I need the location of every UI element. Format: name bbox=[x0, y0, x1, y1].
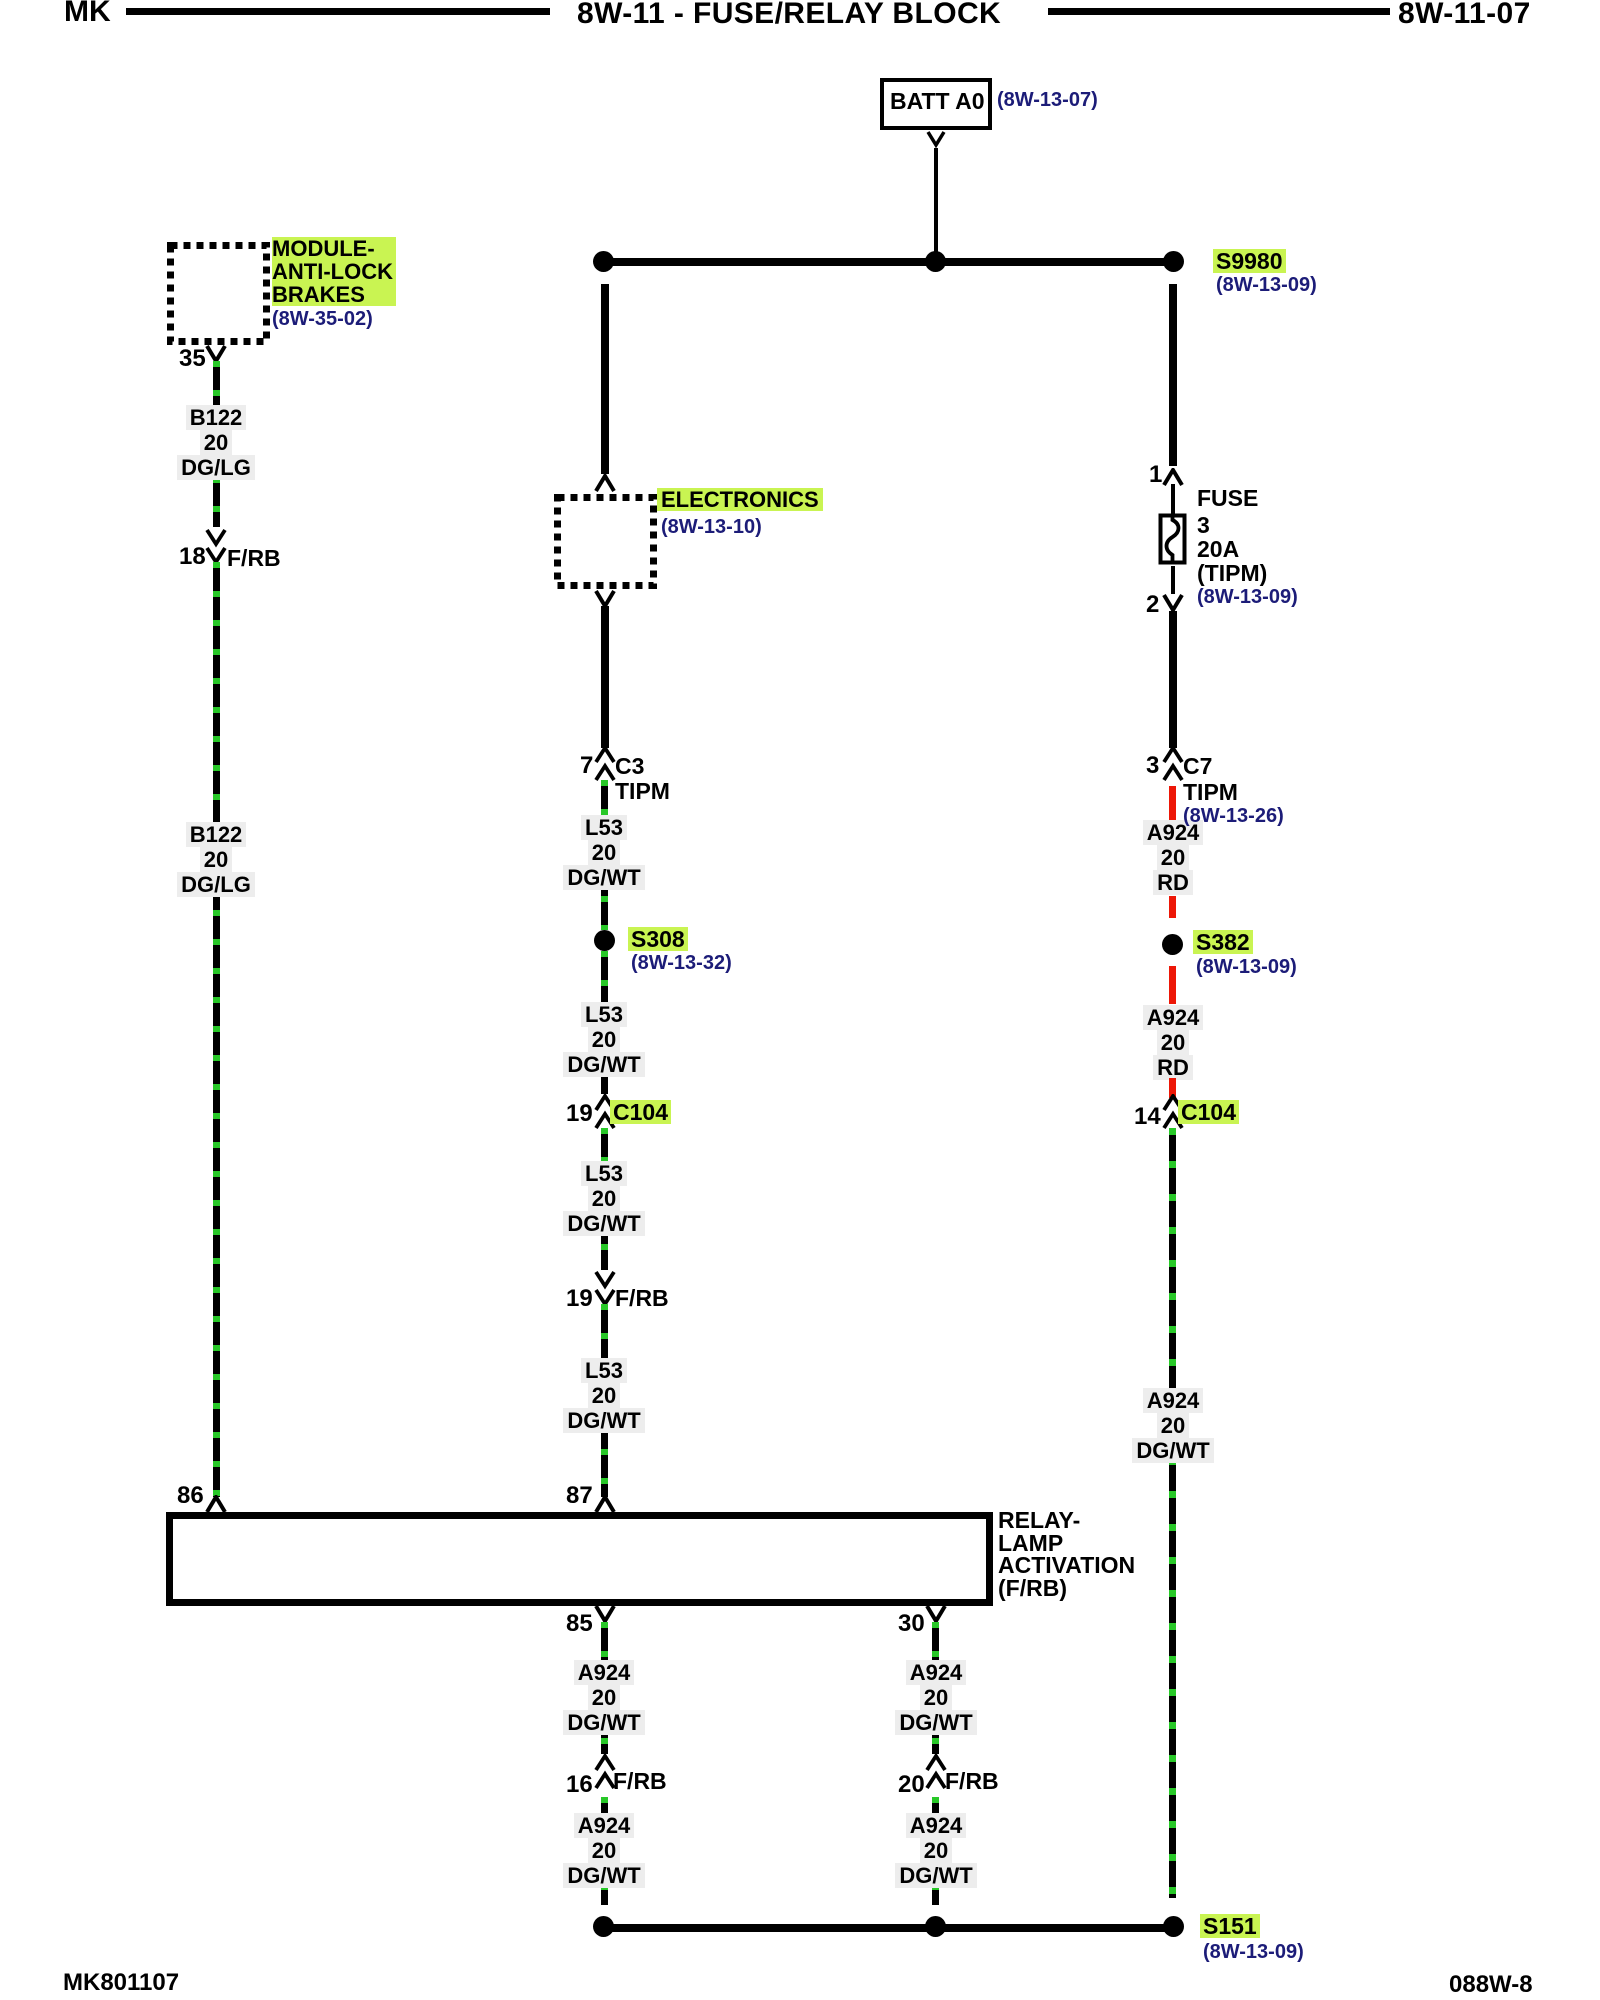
wire label A924 85 bbox=[544, 1660, 664, 1735]
long wire A924 DG/WT right bbox=[1169, 1128, 1176, 1898]
connector V pin 2 bbox=[1162, 593, 1184, 612]
junction dot left bbox=[593, 251, 614, 272]
connector V pin 85 bbox=[594, 1604, 616, 1623]
thin wire into fuse bbox=[1171, 484, 1175, 516]
wire end arrow into electronics bbox=[594, 474, 616, 493]
footer left bbox=[63, 1969, 179, 1997]
connector V under BATT box bbox=[925, 130, 947, 148]
bottom dot middle bbox=[925, 1916, 946, 1937]
bottom dot right bbox=[1163, 1916, 1184, 1937]
wire A924 RD seg3 bbox=[1169, 966, 1176, 1004]
module anti-lock brakes dotted box bbox=[162, 237, 274, 351]
relay box RELAY-LAMP ACTIVATION bbox=[166, 1512, 993, 1606]
wire label A924 30 lower bbox=[876, 1813, 996, 1888]
pin 30 bbox=[898, 1611, 925, 1636]
wire label L53 4 bbox=[544, 1358, 664, 1433]
header page number bbox=[1398, 0, 1531, 31]
wire B122 upper (DG/LG) bbox=[213, 361, 220, 527]
bottom bus wire bbox=[603, 1924, 1174, 1932]
wire label L53 bbox=[544, 815, 664, 890]
footer right bbox=[1449, 1971, 1533, 1999]
wire label L53 3 bbox=[544, 1161, 664, 1236]
wire B122 lower (DG/LG) bbox=[213, 562, 220, 1497]
splice dot S382 bbox=[1162, 934, 1183, 955]
right thick wire to C7 bbox=[1169, 611, 1177, 748]
connector V pin 35 bbox=[205, 344, 227, 363]
fuse F3 bbox=[1157, 512, 1189, 568]
wire label A924 RD 1 bbox=[1113, 820, 1233, 895]
in-line connector 14 C104 bbox=[1162, 1094, 1184, 1130]
pin 35 bbox=[179, 346, 206, 371]
in-line connector 20 F/RB bbox=[925, 1754, 947, 1790]
connector arrow pin 86 bbox=[205, 1495, 227, 1514]
splice S9980 label bbox=[1213, 249, 1286, 273]
splice S151 label bbox=[1200, 1914, 1260, 1938]
wire label A924 DG/WT right bbox=[1113, 1388, 1233, 1463]
connector V below electronics bbox=[594, 589, 616, 608]
wire L53 seg1 bbox=[601, 780, 608, 930]
header title bbox=[577, 0, 1001, 31]
electronics dotted box bbox=[549, 490, 663, 596]
in-line connector 18 F/RB bbox=[205, 528, 227, 564]
wire A924 RD seg4 bbox=[1169, 1078, 1176, 1098]
pin 1 bbox=[1149, 462, 1162, 487]
wire end arrow pin 1 bbox=[1162, 468, 1184, 487]
connector V pin 30 bbox=[925, 1604, 947, 1623]
in-line connector C7 bbox=[1162, 746, 1184, 782]
pin 86 bbox=[177, 1483, 204, 1508]
thin wire below fuse bbox=[1171, 566, 1175, 594]
wire label L53 2 bbox=[544, 1002, 664, 1077]
wire label B122 20 DG/LG lower bbox=[156, 822, 276, 897]
wire L53 seg4 bbox=[601, 1304, 608, 1497]
battery feed box BATT A0 bbox=[880, 78, 992, 130]
splice dot S308 bbox=[594, 930, 615, 951]
wire A924 30 seg1 bbox=[932, 1622, 939, 1754]
top bus wire bbox=[603, 258, 1174, 266]
pin 85 bbox=[566, 1611, 593, 1636]
wire from BATT to bus bbox=[934, 148, 938, 253]
wire label A924 85 lower bbox=[544, 1813, 664, 1888]
wire A924 85 seg2 bbox=[601, 1797, 608, 1905]
in-line connector 19 F/RB bbox=[594, 1270, 616, 1306]
header MK bbox=[64, 0, 111, 29]
wire L53 seg2 bbox=[601, 951, 608, 1094]
wire A924 RD seg1 bbox=[1169, 786, 1176, 846]
wire label A924 30 bbox=[876, 1660, 996, 1735]
wire label A924 RD 2 bbox=[1113, 1005, 1233, 1080]
header rule right bbox=[1048, 8, 1390, 15]
wire label B122 20 DG/LG bbox=[156, 405, 276, 480]
in-line connector 16 F/RB bbox=[594, 1754, 616, 1790]
connector arrow pin 87 bbox=[594, 1495, 616, 1514]
pin 2 bbox=[1146, 592, 1159, 617]
wire L53 seg3 bbox=[601, 1128, 608, 1270]
right thick wire from bus to fuse bbox=[1169, 284, 1177, 466]
in-line connector 19 C104 bbox=[594, 1094, 616, 1130]
wire A924 30 seg2 bbox=[932, 1797, 939, 1905]
pin 87 bbox=[566, 1483, 593, 1508]
junction dot middle bbox=[925, 251, 946, 272]
wire A924 RD seg2 bbox=[1169, 896, 1176, 918]
wire A924 85 seg1 bbox=[601, 1622, 608, 1754]
mid thick wire to C3 bbox=[601, 606, 609, 748]
junction dot right bbox=[1163, 251, 1184, 272]
bottom dot left bbox=[593, 1916, 614, 1937]
in-line connector C3 bbox=[594, 746, 616, 782]
mid thick wire from bus to electronics bbox=[601, 284, 609, 474]
header rule left bbox=[126, 8, 550, 15]
